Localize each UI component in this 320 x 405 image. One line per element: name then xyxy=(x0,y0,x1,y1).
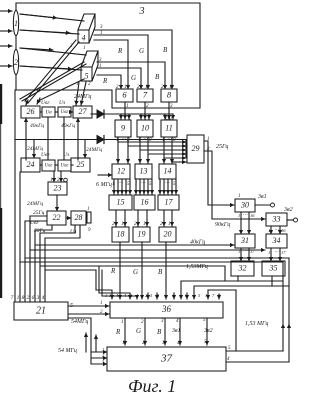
svg-text:1: 1 xyxy=(238,194,241,199)
svg-text:Uвг: Uвг xyxy=(45,164,53,169)
svg-text:2: 2 xyxy=(27,295,30,301)
svg-text:1: 1 xyxy=(14,19,18,28)
svg-text:G: G xyxy=(139,47,144,55)
svg-text:1: 1 xyxy=(143,222,146,227)
svg-text:3: 3 xyxy=(139,6,145,17)
svg-text:3в1: 3в1 xyxy=(257,194,267,200)
svg-text:⋯: ⋯ xyxy=(274,228,279,233)
svg-text:32: 32 xyxy=(238,263,247,272)
svg-text:28: 28 xyxy=(75,213,83,222)
svg-text:1: 1 xyxy=(83,46,86,51)
svg-text:1,53МГц: 1,53МГц xyxy=(186,264,208,270)
svg-text:25Гц: 25Гц xyxy=(216,144,228,150)
svg-text:Uв: Uв xyxy=(45,109,52,115)
svg-text:54 МГц: 54 МГц xyxy=(58,347,77,354)
svg-text:1: 1 xyxy=(168,222,171,227)
svg-text:7: 7 xyxy=(11,295,14,301)
svg-text:Uвг: Uвг xyxy=(41,100,50,106)
svg-text:1: 1 xyxy=(87,207,90,212)
svg-text:31: 31 xyxy=(240,236,249,245)
svg-text:1: 1 xyxy=(268,250,270,255)
svg-text:1: 1 xyxy=(207,137,210,142)
svg-text:34: 34 xyxy=(272,236,281,245)
svg-text:17: 17 xyxy=(165,197,174,206)
svg-text:37: 37 xyxy=(160,353,173,365)
svg-text:11: 11 xyxy=(165,123,172,132)
svg-text:16: 16 xyxy=(141,197,149,206)
svg-text:1: 1 xyxy=(17,295,20,301)
svg-text:1: 1 xyxy=(124,85,127,90)
svg-text:25Гц: 25Гц xyxy=(33,210,45,216)
svg-text:40кГц: 40кГц xyxy=(61,122,75,129)
svg-text:14: 14 xyxy=(164,166,172,175)
svg-text:1: 1 xyxy=(169,85,172,90)
svg-text:B: B xyxy=(157,328,162,336)
svg-text:R: R xyxy=(110,267,116,275)
svg-text:16: 16 xyxy=(250,213,255,218)
svg-text:1: 1 xyxy=(122,341,125,346)
svg-text:13: 13 xyxy=(140,166,148,175)
svg-text:33: 33 xyxy=(272,214,281,223)
svg-text:24МГц: 24МГц xyxy=(27,200,43,207)
svg-text:⋯: ⋯ xyxy=(243,249,248,254)
svg-text:1: 1 xyxy=(105,293,107,298)
svg-text:1: 1 xyxy=(145,85,148,90)
svg-text:Uц: Uц xyxy=(165,116,172,122)
svg-text:1: 1 xyxy=(268,228,270,233)
svg-text:22: 22 xyxy=(53,213,61,222)
svg-text:3: 3 xyxy=(36,295,40,301)
svg-text:1: 1 xyxy=(100,301,103,306)
svg-text:1: 1 xyxy=(126,104,129,109)
svg-text:17: 17 xyxy=(281,250,286,255)
svg-text:23: 23 xyxy=(54,183,62,192)
svg-text:6 МГц: 6 МГц xyxy=(96,182,112,188)
svg-text:25: 25 xyxy=(77,160,85,169)
svg-text:G: G xyxy=(133,268,138,276)
svg-text:Uз: Uз xyxy=(59,100,65,106)
svg-text:1: 1 xyxy=(238,213,240,218)
svg-text:G: G xyxy=(131,74,136,82)
svg-text:24МГц: 24МГц xyxy=(86,146,102,153)
svg-text:3в2: 3в2 xyxy=(203,328,213,334)
svg-text:⋯: ⋯ xyxy=(141,181,146,186)
svg-text:18: 18 xyxy=(117,229,125,238)
svg-text:1: 1 xyxy=(76,82,79,87)
svg-text:16: 16 xyxy=(281,228,286,233)
svg-text:1: 1 xyxy=(100,31,103,36)
svg-text:8: 8 xyxy=(22,295,25,301)
svg-text:10: 10 xyxy=(141,123,149,132)
svg-text:G: G xyxy=(136,327,141,335)
svg-text:1: 1 xyxy=(238,249,240,254)
svg-text:24МГц: 24МГц xyxy=(27,145,43,152)
svg-text:3в1: 3в1 xyxy=(171,328,181,334)
svg-text:Uвг: Uвг xyxy=(61,110,69,115)
svg-text:B: B xyxy=(155,73,160,81)
svg-text:1: 1 xyxy=(99,64,102,69)
svg-text:15: 15 xyxy=(117,197,125,206)
svg-text:4: 4 xyxy=(82,34,86,43)
svg-text:6: 6 xyxy=(32,295,35,301)
svg-text:⋯: ⋯ xyxy=(243,213,248,218)
svg-text:35: 35 xyxy=(269,263,278,272)
svg-text:24МГц: 24МГц xyxy=(74,93,91,100)
svg-text:29: 29 xyxy=(192,144,200,153)
svg-text:1: 1 xyxy=(121,320,124,325)
svg-text:Uвг: Uвг xyxy=(61,164,69,169)
svg-text:40кГц: 40кГц xyxy=(30,122,44,129)
svg-text:36: 36 xyxy=(161,304,172,314)
svg-text:⋯: ⋯ xyxy=(274,250,279,255)
svg-text:24: 24 xyxy=(27,160,35,169)
svg-text:30: 30 xyxy=(240,200,249,209)
svg-text:26: 26 xyxy=(27,107,35,116)
svg-text:1,53 МГц: 1,53 МГц xyxy=(245,321,268,327)
svg-text:20: 20 xyxy=(164,229,172,238)
svg-text:B: B xyxy=(158,268,163,276)
svg-text:1: 1 xyxy=(102,347,104,352)
svg-text:5: 5 xyxy=(85,72,89,81)
svg-text:54МГц: 54МГц xyxy=(71,318,88,325)
svg-text:Фиг. 1: Фиг. 1 xyxy=(128,376,176,396)
svg-text:R: R xyxy=(102,77,108,85)
svg-text:17: 17 xyxy=(250,249,255,254)
svg-text:1: 1 xyxy=(121,222,124,227)
svg-text:4: 4 xyxy=(42,294,45,301)
svg-text:B: B xyxy=(163,46,168,54)
svg-text:R: R xyxy=(117,47,123,55)
svg-text:Uвг: Uвг xyxy=(41,152,50,158)
svg-text:19: 19 xyxy=(138,229,146,238)
svg-text:Uл: Uл xyxy=(70,229,77,235)
svg-text:27: 27 xyxy=(79,107,88,116)
svg-text:21: 21 xyxy=(36,305,46,316)
svg-text:3в2: 3в2 xyxy=(283,207,293,213)
svg-text:90кГц: 90кГц xyxy=(215,222,230,228)
svg-text:R: R xyxy=(115,328,121,336)
svg-text:⋯: ⋯ xyxy=(165,181,170,186)
svg-text:2: 2 xyxy=(14,58,18,67)
svg-text:12: 12 xyxy=(117,166,125,175)
